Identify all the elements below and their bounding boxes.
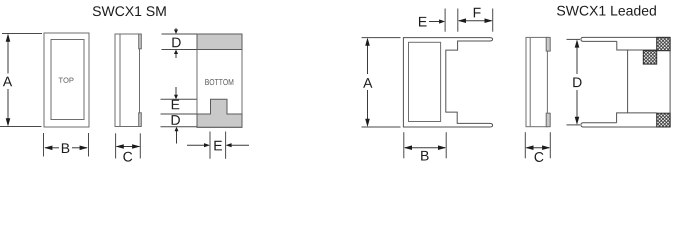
label B (SM) <box>62 143 69 153</box>
dimension E top (leaded) extension line <box>444 9 446 32</box>
SM top view inner outline <box>51 40 84 120</box>
dimension C (leaded) extension line left <box>524 132 526 158</box>
dimension D (leaded) extension line top <box>567 38 581 40</box>
leaded end view hatch pad top inner <box>643 51 656 64</box>
leaded side view bottom terminal tab <box>546 113 550 127</box>
label C (leaded) <box>535 152 544 162</box>
dimension B (SM) left arrow <box>45 147 59 149</box>
SM top view outer outline <box>44 33 89 127</box>
label C (SM) <box>123 152 132 162</box>
SM side view inner line <box>119 35 121 127</box>
dimension D top (SM) lower arrow <box>175 52 177 58</box>
leaded end view bottom lead step <box>617 113 657 123</box>
dimension E top (leaded) label <box>419 17 427 27</box>
dimension A (leaded) arrowhead down <box>365 119 370 127</box>
label D bottom (SM) <box>172 115 180 125</box>
dimension E top (leaded) arrow <box>429 21 442 23</box>
dimension B (leaded) double arrow <box>405 147 445 149</box>
dimension E bottom (SM) extension line left <box>209 132 211 159</box>
dimension B (leaded) extension line left <box>403 132 405 158</box>
dimension A (leaded) extension line bottom <box>362 126 401 128</box>
label B (leaded) <box>421 151 428 161</box>
SM side view top terminal tab <box>139 34 142 49</box>
dimension A (SM) extension line top <box>2 33 42 35</box>
dimension A (leaded) extension line top <box>362 37 401 39</box>
title SWCX1 SM <box>93 6 166 16</box>
SM side view body <box>115 34 140 127</box>
dimension A (SM) arrowhead up <box>6 34 11 42</box>
dimension D bottom (SM) extension line <box>161 126 197 128</box>
dimension E bottom (SM) right arrow <box>229 144 250 146</box>
dimension D top (SM) extension line lower <box>162 49 197 51</box>
dimension D top (SM) extension line upper <box>162 33 197 35</box>
dimension A (SM) extension line bottom <box>0 126 42 128</box>
dimension C (SM) extension line right <box>139 133 141 158</box>
SM bottom view outline <box>197 34 242 127</box>
dimension F (leaded) extension line right <box>492 9 494 32</box>
leaded end view top lead step <box>617 41 657 50</box>
leaded side view body <box>526 37 547 126</box>
label D top (SM) <box>172 38 180 48</box>
dimension E bottom (SM) extension line right <box>225 132 227 159</box>
dimension B (SM) extension line right <box>88 133 90 157</box>
label D (leaded) <box>573 77 581 87</box>
dimension C (SM) double arrow <box>117 146 140 148</box>
leaded end view hatch pad top corner <box>657 37 670 50</box>
dimension E left (SM) arrow <box>175 87 177 97</box>
label BOTTOM <box>205 79 233 85</box>
dimension C (SM) extension line left <box>115 133 117 158</box>
dimension E left (SM) extension line upper <box>161 98 197 100</box>
dimension B (leaded) extension line right <box>445 132 447 158</box>
dimension D bottom (SM) arrow <box>176 130 178 144</box>
dimension D (leaded) arrowhead up <box>575 39 580 47</box>
dimension B (SM) right arrow <box>72 147 87 149</box>
dimension C (leaded) extension line right <box>549 132 551 158</box>
dimension D (leaded) arrowhead down <box>575 117 580 125</box>
leaded end view right edge <box>669 37 671 127</box>
leaded end view top lead <box>581 37 670 41</box>
dimension D (leaded) extension line bottom <box>567 124 581 126</box>
dimension A (leaded) dim line <box>367 39 369 74</box>
label F (leaded) <box>474 8 481 18</box>
dimension C (leaded) double arrow <box>527 147 550 149</box>
SM bottom view bottom terminal band with pedestal <box>197 99 242 127</box>
SM side view bottom terminal tab <box>139 113 142 127</box>
dimension A (SM) arrowhead down <box>6 118 11 126</box>
leaded front view inner outline <box>409 42 441 121</box>
dimension A (leaded) arrowhead up <box>365 38 370 46</box>
label E bottom (SM) <box>214 141 222 151</box>
dimension E bottom (SM) left arrow <box>187 144 207 146</box>
leaded side view inner line <box>529 38 531 126</box>
leaded end view hatch pad bottom corner <box>657 113 670 127</box>
leaded end view bottom edge with lead <box>581 123 670 127</box>
title SWCX1 Leaded <box>557 5 656 15</box>
leaded end view body left edge <box>627 50 629 113</box>
dimension E left (SM) extension line lower <box>161 113 197 115</box>
dimension F (leaded) double arrow <box>459 20 492 22</box>
label E left (SM) <box>172 100 180 110</box>
dimension D (leaded) dim line <box>576 41 578 74</box>
leaded front view outer contour with leads <box>403 38 492 127</box>
SM bottom view top terminal band <box>197 34 242 50</box>
label A (SM) <box>3 77 12 87</box>
leaded side view top terminal tab <box>546 37 550 51</box>
label TOP <box>59 78 74 83</box>
label A (leaded) <box>363 78 372 88</box>
dimension A (SM) dim line <box>7 35 9 74</box>
dimension F (leaded) extension line left <box>457 9 459 32</box>
dimension B (SM) extension line left <box>43 133 45 157</box>
dimension D top (SM) upper arrow <box>175 28 177 31</box>
